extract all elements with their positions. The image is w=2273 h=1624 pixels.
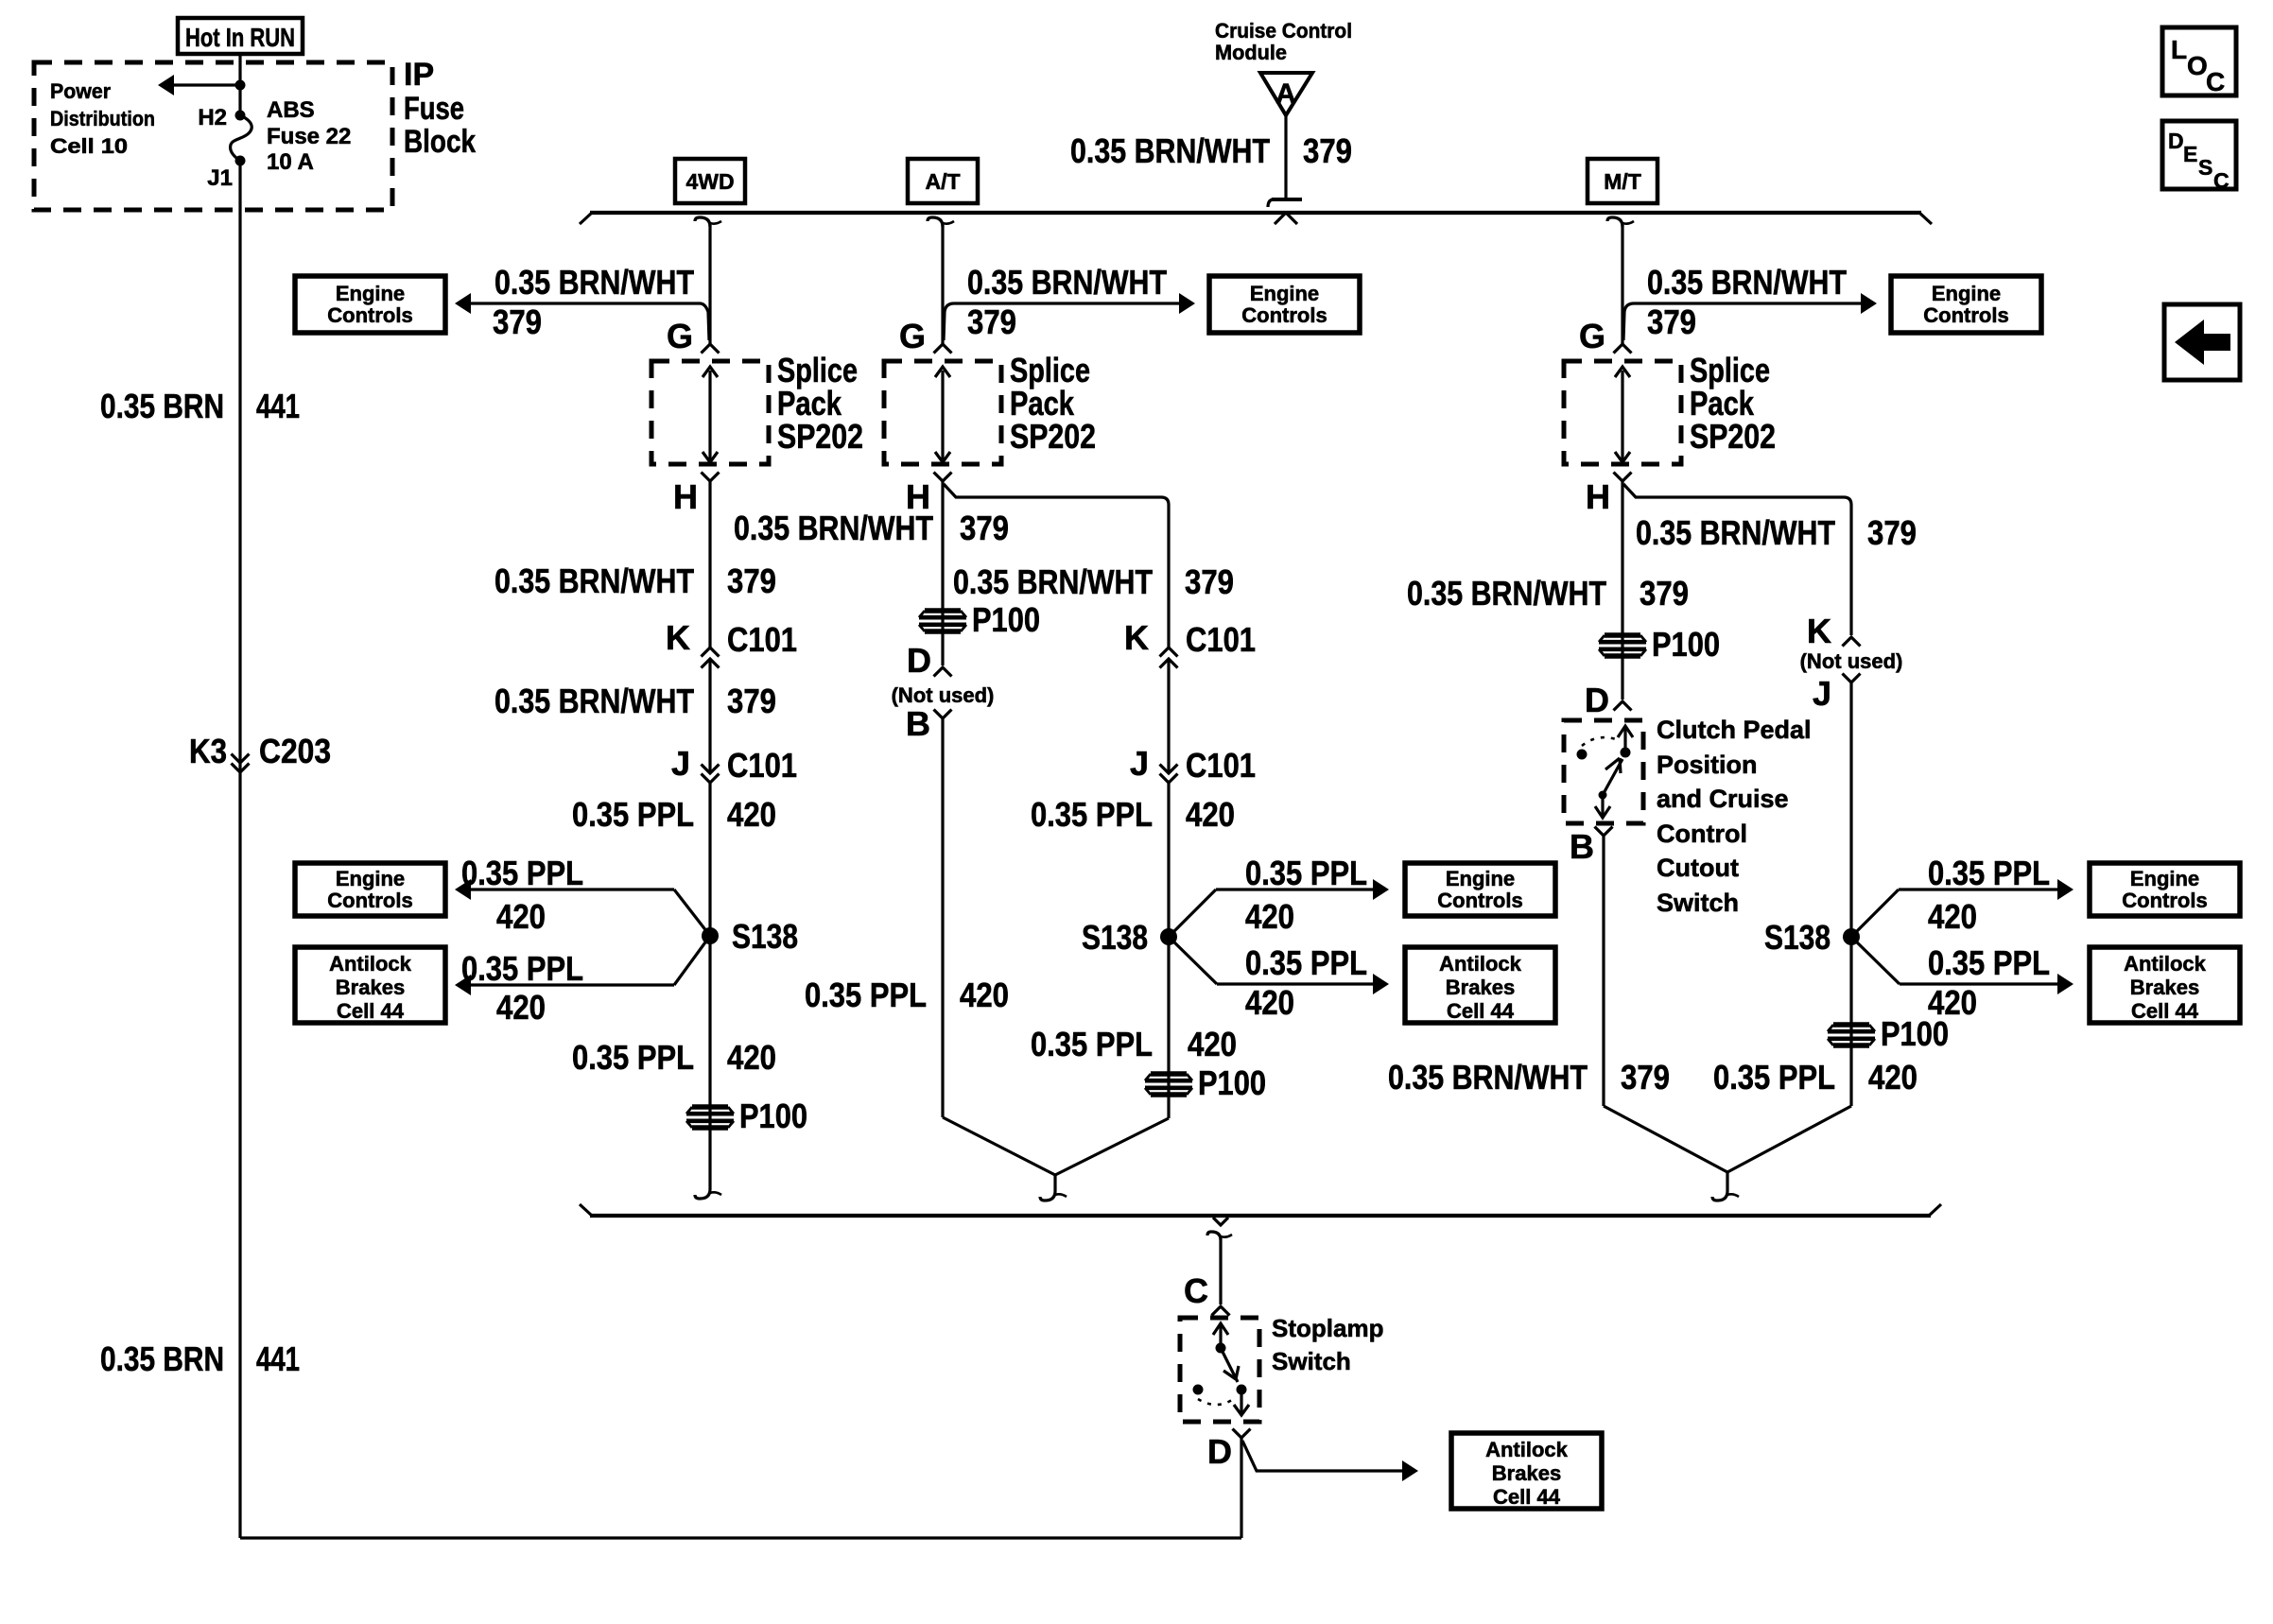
svg-text:Cell 44: Cell 44 [337, 999, 405, 1023]
svg-text:Engine: Engine [2130, 867, 2199, 890]
svg-text:0.35 BRN/WHT: 0.35 BRN/WHT [1647, 263, 1847, 302]
svg-text:Antilock: Antilock [329, 952, 412, 976]
svg-text:0.35 BRN/WHT: 0.35 BRN/WHT [495, 561, 694, 600]
svg-text:C101: C101 [1186, 746, 1256, 785]
svg-text:379: 379 [1867, 513, 1917, 552]
svg-text:Position: Position [1657, 751, 1758, 779]
svg-text:M/T: M/T [1604, 169, 1641, 194]
svg-text:S138: S138 [732, 917, 798, 956]
svg-text:Hot In RUN: Hot In RUN [185, 23, 295, 52]
svg-text:G: G [899, 317, 926, 355]
svg-text:379: 379 [1640, 574, 1689, 613]
svg-text:420: 420 [1245, 983, 1294, 1022]
svg-text:Engine: Engine [1446, 867, 1515, 890]
svg-text:10 A: 10 A [267, 149, 314, 175]
svg-text:Engine: Engine [336, 282, 405, 305]
svg-text:H: H [1586, 477, 1610, 516]
svg-text:Brakes: Brakes [2130, 976, 2199, 999]
svg-text:P100: P100 [1881, 1014, 1949, 1053]
svg-text:420: 420 [1186, 795, 1235, 834]
svg-text:0.35 PPL: 0.35 PPL [1245, 854, 1367, 892]
svg-text:0.35 PPL: 0.35 PPL [1031, 795, 1153, 834]
svg-text:A: A [1275, 78, 1296, 110]
svg-text:379: 379 [1621, 1058, 1670, 1097]
svg-text:J: J [671, 744, 690, 783]
svg-text:(Not used): (Not used) [1800, 649, 1903, 673]
svg-text:Cell 44: Cell 44 [1493, 1485, 1561, 1509]
svg-text:0.35 PPL: 0.35 PPL [1031, 1025, 1153, 1063]
svg-text:SP202: SP202 [1010, 417, 1096, 456]
svg-text:P100: P100 [1198, 1063, 1266, 1102]
svg-text:Stoplamp: Stoplamp [1272, 1314, 1383, 1342]
svg-text:0.35 BRN/WHT: 0.35 BRN/WHT [1388, 1058, 1588, 1097]
svg-text:Brakes: Brakes [336, 976, 405, 999]
svg-text:B: B [1570, 827, 1594, 866]
svg-text:420: 420 [1245, 897, 1294, 936]
svg-text:K: K [1807, 612, 1831, 650]
svg-text:379: 379 [727, 682, 776, 720]
svg-text:0.35 BRN/WHT: 0.35 BRN/WHT [495, 263, 694, 302]
svg-text:L: L [2171, 35, 2187, 64]
svg-text:0.35 PPL: 0.35 PPL [1928, 854, 2050, 892]
svg-text:H2: H2 [198, 105, 227, 130]
svg-text:Cutout: Cutout [1657, 854, 1739, 882]
svg-text:J: J [1130, 744, 1149, 783]
svg-text:D: D [1207, 1432, 1232, 1471]
svg-text:420: 420 [496, 897, 546, 936]
svg-text:Engine: Engine [1250, 282, 1319, 305]
svg-text:Controls: Controls [1437, 889, 1522, 912]
svg-text:Block: Block [404, 124, 476, 160]
svg-text:Control: Control [1657, 820, 1747, 848]
svg-text:0.35 PPL: 0.35 PPL [1713, 1058, 1835, 1097]
svg-text:Antilock: Antilock [1439, 952, 1522, 976]
svg-text:420: 420 [727, 1038, 776, 1077]
svg-text:B: B [906, 704, 930, 743]
svg-text:Switch: Switch [1272, 1347, 1351, 1375]
svg-text:0.35 BRN: 0.35 BRN [100, 387, 224, 425]
svg-text:4WD: 4WD [685, 169, 734, 194]
svg-text:P100: P100 [739, 1097, 807, 1135]
svg-text:441: 441 [256, 1339, 300, 1378]
svg-text:C101: C101 [727, 620, 797, 659]
svg-text:Brakes: Brakes [1492, 1461, 1561, 1485]
svg-text:Engine: Engine [336, 867, 405, 890]
svg-text:C203: C203 [259, 732, 331, 770]
svg-text:379: 379 [960, 509, 1009, 547]
svg-text:IP: IP [404, 57, 434, 93]
svg-text:379: 379 [1647, 302, 1696, 341]
svg-text:420: 420 [1868, 1058, 1917, 1097]
svg-text:SP202: SP202 [1690, 417, 1776, 456]
svg-text:Controls: Controls [327, 303, 412, 327]
svg-text:0.35 PPL: 0.35 PPL [461, 854, 583, 892]
svg-text:0.35 PPL: 0.35 PPL [1245, 943, 1367, 982]
svg-text:ABS: ABS [267, 97, 315, 123]
svg-text:420: 420 [960, 976, 1009, 1014]
svg-text:A/T: A/T [925, 169, 960, 194]
svg-text:Engine: Engine [1932, 282, 2001, 305]
svg-text:Antilock: Antilock [1485, 1438, 1569, 1461]
svg-text:C: C [2213, 168, 2230, 193]
svg-text:0.35 PPL: 0.35 PPL [572, 795, 694, 834]
svg-text:Distribution: Distribution [50, 107, 155, 130]
svg-text:Module: Module [1215, 41, 1287, 64]
svg-text:0.35 BRN: 0.35 BRN [100, 1339, 224, 1378]
svg-text:S: S [2198, 155, 2212, 180]
svg-text:379: 379 [727, 561, 776, 600]
svg-text:O: O [2187, 51, 2208, 80]
svg-text:0.35 BRN/WHT: 0.35 BRN/WHT [734, 509, 933, 547]
svg-text:G: G [1579, 317, 1605, 355]
svg-text:E: E [2183, 142, 2197, 166]
svg-text:0.35 BRN/WHT: 0.35 BRN/WHT [1407, 574, 1606, 613]
svg-text:and Cruise: and Cruise [1657, 785, 1789, 813]
svg-text:K3: K3 [189, 732, 227, 770]
svg-text:P100: P100 [972, 600, 1040, 639]
svg-text:0.35 BRN/WHT: 0.35 BRN/WHT [967, 263, 1167, 302]
svg-text:0.35 BRN/WHT: 0.35 BRN/WHT [1636, 513, 1835, 552]
svg-text:0.35 BRN/WHT: 0.35 BRN/WHT [1070, 131, 1270, 170]
svg-text:379: 379 [1185, 562, 1234, 601]
svg-text:Cell 10: Cell 10 [50, 134, 128, 158]
svg-text:Brakes: Brakes [1446, 976, 1515, 999]
svg-text:Antilock: Antilock [2124, 952, 2207, 976]
svg-text:Controls: Controls [1241, 303, 1327, 327]
svg-text:Fuse 22: Fuse 22 [267, 124, 351, 149]
svg-text:H: H [673, 477, 698, 516]
svg-text:C: C [2206, 67, 2225, 96]
svg-text:D: D [1585, 681, 1609, 719]
svg-text:Controls: Controls [1923, 303, 2008, 327]
svg-text:0.35 BRN/WHT: 0.35 BRN/WHT [953, 562, 1153, 601]
svg-text:J: J [1813, 674, 1831, 713]
svg-text:Cell 44: Cell 44 [2131, 999, 2199, 1023]
svg-text:Clutch Pedal: Clutch Pedal [1657, 716, 1812, 744]
svg-text:0.35 BRN/WHT: 0.35 BRN/WHT [495, 682, 694, 720]
svg-text:0.35 PPL: 0.35 PPL [805, 976, 927, 1014]
svg-text:K: K [666, 618, 690, 657]
svg-text:Fuse: Fuse [404, 91, 464, 127]
svg-text:0.35 PPL: 0.35 PPL [1928, 943, 2050, 982]
svg-text:379: 379 [967, 302, 1016, 341]
svg-text:C101: C101 [727, 746, 797, 785]
svg-text:Switch: Switch [1657, 889, 1739, 917]
svg-text:P100: P100 [1652, 625, 1720, 664]
svg-text:K: K [1124, 618, 1149, 657]
svg-text:C: C [1184, 1271, 1208, 1310]
svg-text:420: 420 [1188, 1025, 1237, 1063]
svg-text:SP202: SP202 [777, 417, 863, 456]
svg-text:D: D [907, 641, 931, 680]
svg-text:Cruise Control: Cruise Control [1215, 19, 1352, 43]
svg-text:420: 420 [727, 795, 776, 834]
svg-text:420: 420 [496, 988, 546, 1027]
svg-text:379: 379 [1303, 131, 1352, 170]
svg-text:S138: S138 [1764, 918, 1831, 957]
svg-text:Controls: Controls [2122, 889, 2207, 912]
svg-text:D: D [2168, 129, 2184, 153]
svg-text:0.35 PPL: 0.35 PPL [572, 1038, 694, 1077]
svg-text:J1: J1 [207, 165, 233, 191]
svg-text:0.35 PPL: 0.35 PPL [461, 949, 583, 988]
svg-text:441: 441 [256, 387, 300, 425]
svg-text:379: 379 [493, 302, 542, 341]
svg-text:S138: S138 [1082, 918, 1148, 957]
svg-text:G: G [667, 317, 693, 355]
svg-text:Controls: Controls [327, 889, 412, 912]
svg-text:C101: C101 [1186, 620, 1256, 659]
svg-text:Cell 44: Cell 44 [1447, 999, 1515, 1023]
svg-text:420: 420 [1928, 897, 1977, 936]
svg-text:Power: Power [50, 79, 111, 103]
